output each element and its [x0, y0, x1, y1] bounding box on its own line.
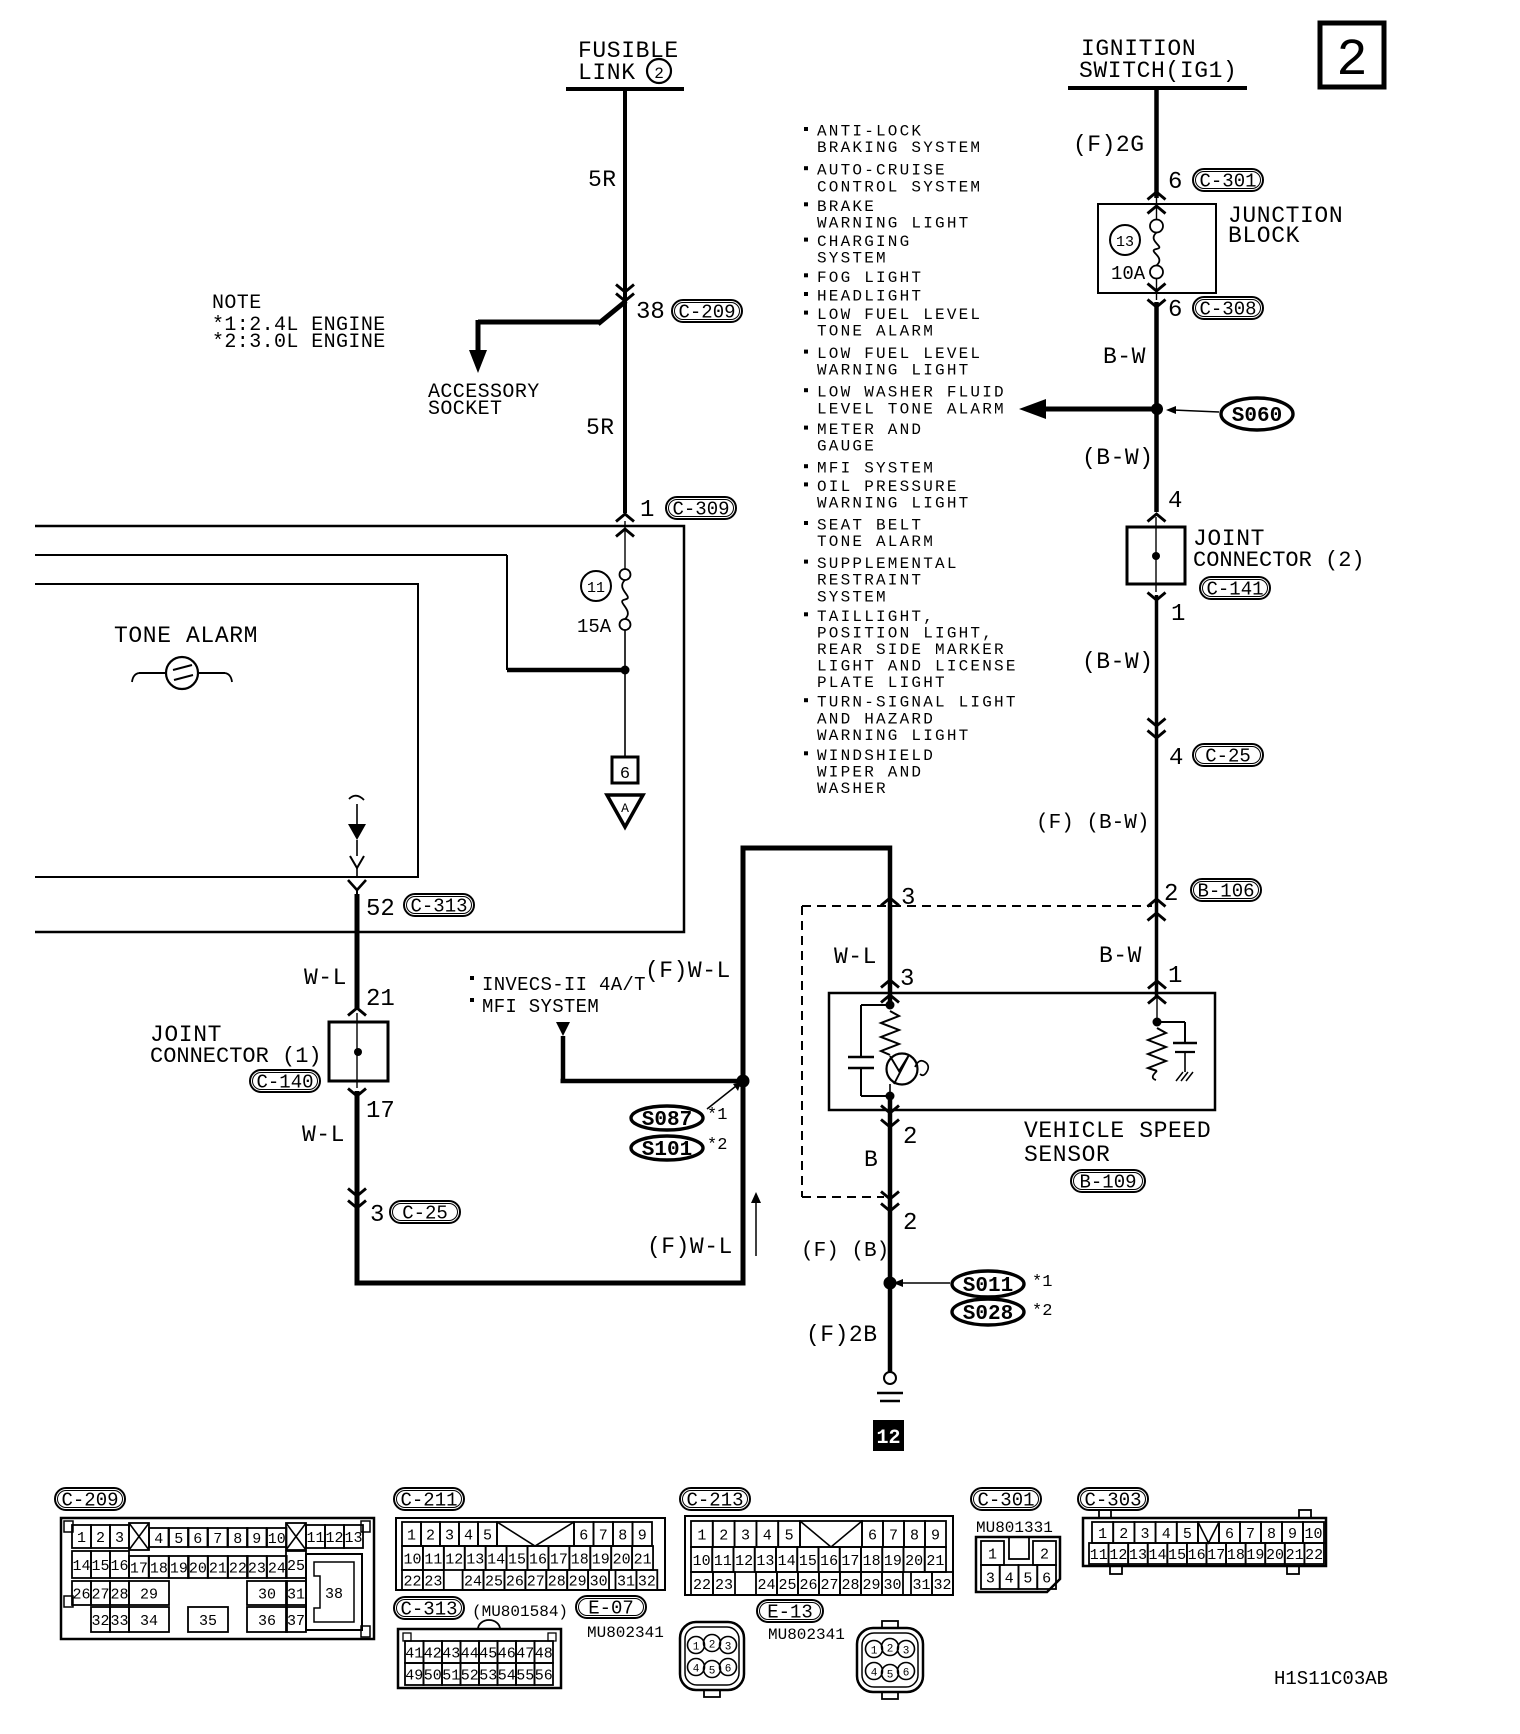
svg-text:6: 6	[193, 1531, 202, 1548]
svg-text:W-L: W-L	[834, 944, 877, 970]
svg-text:WASHER: WASHER	[817, 780, 888, 798]
svg-text:12: 12	[876, 1427, 900, 1450]
svg-text:3: 3	[370, 1202, 384, 1229]
svg-text:3: 3	[725, 1642, 732, 1654]
svg-text:38: 38	[636, 299, 665, 326]
svg-text:49: 49	[405, 1667, 423, 1684]
svg-text:C-211: C-211	[400, 1490, 457, 1512]
svg-text:POSITION LIGHT,: POSITION LIGHT,	[817, 624, 994, 642]
svg-text:12: 12	[445, 1551, 463, 1568]
svg-text:B-106: B-106	[1197, 881, 1254, 903]
svg-text:20: 20	[613, 1551, 631, 1568]
svg-text:56: 56	[535, 1667, 553, 1684]
svg-text:4: 4	[1005, 1570, 1014, 1587]
svg-text:WARNING LIGHT: WARNING LIGHT	[817, 362, 970, 380]
svg-text:32: 32	[933, 1577, 951, 1594]
svg-text:10: 10	[268, 1531, 286, 1548]
svg-text:BLOCK: BLOCK	[1228, 223, 1300, 249]
svg-text:30: 30	[258, 1586, 276, 1603]
svg-text:PLATE LIGHT: PLATE LIGHT	[817, 674, 947, 692]
svg-text:19: 19	[1246, 1547, 1264, 1564]
svg-text:24: 24	[464, 1573, 482, 1590]
svg-text:E-13: E-13	[767, 1602, 813, 1624]
svg-text:10: 10	[693, 1553, 711, 1570]
svg-text:26: 26	[72, 1586, 90, 1603]
svg-text:LOW FUEL LEVEL: LOW FUEL LEVEL	[817, 306, 982, 324]
svg-text:(B-W): (B-W)	[1082, 649, 1154, 675]
svg-text:21: 21	[926, 1553, 944, 1570]
svg-text:30: 30	[883, 1577, 901, 1594]
svg-text:3: 3	[903, 1646, 910, 1658]
svg-text:14: 14	[487, 1551, 505, 1568]
svg-text:52: 52	[366, 896, 395, 923]
svg-text:(MU801584): (MU801584)	[472, 1603, 568, 1621]
svg-text:HEADLIGHT: HEADLIGHT	[817, 288, 923, 306]
svg-text:16: 16	[1188, 1547, 1206, 1564]
svg-text:41: 41	[405, 1645, 423, 1662]
svg-text:26: 26	[799, 1577, 817, 1594]
svg-text:1: 1	[693, 1642, 700, 1654]
svg-text:3: 3	[986, 1570, 995, 1587]
svg-text:CONTROL SYSTEM: CONTROL SYSTEM	[817, 178, 982, 196]
svg-text:19: 19	[884, 1553, 902, 1570]
svg-text:9: 9	[638, 1527, 647, 1544]
svg-text:1: 1	[77, 1530, 86, 1547]
svg-text:15: 15	[1168, 1547, 1186, 1564]
svg-text:32: 32	[638, 1573, 656, 1590]
svg-text:TURN-SIGNAL LIGHT: TURN-SIGNAL LIGHT	[817, 694, 1018, 712]
svg-text:W-L: W-L	[302, 1122, 345, 1148]
svg-text:TONE ALARM: TONE ALARM	[817, 533, 935, 551]
svg-text:29: 29	[140, 1586, 158, 1603]
svg-text:(F)W-L: (F)W-L	[645, 958, 731, 984]
svg-text:WARNING LIGHT: WARNING LIGHT	[817, 727, 970, 745]
svg-text:4: 4	[693, 1664, 700, 1676]
svg-text:B: B	[864, 1147, 878, 1173]
svg-text:A: A	[621, 801, 629, 816]
svg-text:2: 2	[654, 65, 664, 83]
svg-text:ANTI-LOCK: ANTI-LOCK	[817, 123, 923, 141]
svg-text:13: 13	[344, 1530, 362, 1547]
svg-text:19: 19	[170, 1560, 188, 1577]
svg-text:LIGHT AND LICENSE: LIGHT AND LICENSE	[817, 658, 1018, 676]
svg-text:4: 4	[154, 1531, 163, 1548]
svg-text:6: 6	[725, 1664, 732, 1676]
svg-text:5: 5	[887, 1670, 894, 1682]
svg-text:1: 1	[871, 1646, 878, 1658]
svg-text:SYSTEM: SYSTEM	[817, 250, 888, 268]
svg-text:11: 11	[424, 1551, 442, 1568]
svg-text:FOG LIGHT: FOG LIGHT	[817, 269, 923, 287]
svg-text:10: 10	[403, 1551, 421, 1568]
svg-text:12: 12	[735, 1553, 753, 1570]
svg-text:C-308: C-308	[1199, 299, 1256, 321]
svg-text:S087: S087	[642, 1109, 692, 1132]
svg-text:WIPER AND: WIPER AND	[817, 763, 923, 781]
svg-text:1: 1	[407, 1527, 416, 1544]
svg-text:C-140: C-140	[256, 1072, 313, 1094]
svg-text:MFI SYSTEM: MFI SYSTEM	[817, 460, 935, 478]
svg-text:21: 21	[366, 986, 395, 1013]
svg-text:WARNING LIGHT: WARNING LIGHT	[817, 214, 970, 232]
svg-text:2: 2	[1040, 1546, 1049, 1563]
svg-text:5: 5	[785, 1527, 794, 1544]
svg-text:SEAT BELT: SEAT BELT	[817, 517, 923, 535]
svg-text:5R: 5R	[586, 415, 615, 441]
svg-text:25: 25	[485, 1573, 503, 1590]
svg-text:22: 22	[229, 1560, 247, 1577]
svg-text:C-313: C-313	[410, 896, 467, 918]
svg-text:18: 18	[150, 1560, 168, 1577]
svg-text:(F)2G: (F)2G	[1073, 132, 1145, 158]
svg-text:34: 34	[140, 1613, 158, 1630]
svg-text:16: 16	[529, 1551, 547, 1568]
svg-text:18: 18	[571, 1551, 589, 1568]
svg-text:15: 15	[508, 1551, 526, 1568]
svg-text:LINK: LINK	[578, 60, 636, 86]
svg-text:*1: *1	[707, 1106, 727, 1125]
svg-text:(F)W-L: (F)W-L	[647, 1234, 733, 1260]
svg-text:2: 2	[903, 1210, 917, 1237]
svg-text:MU802341: MU802341	[587, 1624, 664, 1642]
svg-text:B-W: B-W	[1099, 943, 1142, 969]
svg-text:METER AND: METER AND	[817, 421, 923, 439]
svg-text:3: 3	[445, 1527, 454, 1544]
svg-text:7: 7	[599, 1527, 608, 1544]
svg-text:27: 27	[820, 1577, 838, 1594]
svg-text:2: 2	[887, 1644, 894, 1656]
svg-text:29: 29	[862, 1577, 880, 1594]
svg-text:B-W: B-W	[1103, 344, 1146, 370]
svg-text:15: 15	[799, 1553, 817, 1570]
svg-text:36: 36	[258, 1613, 276, 1630]
svg-text:WARNING LIGHT: WARNING LIGHT	[817, 495, 970, 513]
svg-text:C-25: C-25	[402, 1203, 448, 1225]
svg-text:9: 9	[1288, 1526, 1297, 1543]
svg-text:INVECS-II 4A/T: INVECS-II 4A/T	[482, 974, 646, 996]
svg-text:VEHICLE SPEED: VEHICLE SPEED	[1024, 1118, 1211, 1144]
svg-text:H1S11C03AB: H1S11C03AB	[1274, 1668, 1388, 1690]
svg-text:17: 17	[841, 1553, 859, 1570]
svg-text:C-301: C-301	[1199, 171, 1256, 193]
svg-text:28: 28	[548, 1573, 566, 1590]
svg-text:13: 13	[466, 1551, 484, 1568]
svg-text:C-309: C-309	[672, 499, 729, 521]
svg-text:TONE ALARM: TONE ALARM	[114, 623, 258, 649]
svg-text:SOCKET: SOCKET	[428, 398, 502, 421]
svg-text:22: 22	[403, 1573, 421, 1590]
svg-text:15: 15	[91, 1558, 109, 1575]
svg-text:13: 13	[1116, 234, 1134, 251]
svg-text:44: 44	[461, 1645, 479, 1662]
svg-text:11: 11	[1090, 1547, 1108, 1564]
svg-text:23: 23	[424, 1573, 442, 1590]
svg-text:28: 28	[110, 1586, 128, 1603]
svg-text:2: 2	[1164, 881, 1178, 908]
svg-text:AUTO-CRUISE: AUTO-CRUISE	[817, 162, 947, 180]
svg-text:B-109: B-109	[1079, 1172, 1136, 1194]
svg-text:24: 24	[268, 1560, 286, 1577]
svg-text:8: 8	[233, 1531, 242, 1548]
svg-text:TONE ALARM: TONE ALARM	[817, 323, 935, 341]
svg-text:48: 48	[535, 1645, 553, 1662]
svg-text:52: 52	[461, 1667, 479, 1684]
svg-text:12: 12	[1109, 1547, 1127, 1564]
svg-text:1: 1	[697, 1527, 706, 1544]
svg-text:RESTRAINT: RESTRAINT	[817, 572, 923, 590]
svg-text:13: 13	[756, 1553, 774, 1570]
svg-text:21: 21	[634, 1551, 652, 1568]
svg-text:1: 1	[1098, 1526, 1107, 1543]
svg-text:C-301: C-301	[977, 1490, 1034, 1512]
svg-text:24: 24	[757, 1577, 775, 1594]
svg-text:8: 8	[618, 1527, 627, 1544]
svg-text:6: 6	[868, 1527, 877, 1544]
svg-text:(F) (B): (F) (B)	[801, 1240, 889, 1263]
svg-text:3: 3	[900, 966, 914, 993]
svg-text:SYSTEM: SYSTEM	[817, 588, 888, 606]
svg-text:6: 6	[620, 765, 630, 784]
svg-text:S011: S011	[963, 1275, 1013, 1298]
svg-text:SENSOR: SENSOR	[1024, 1142, 1110, 1168]
svg-text:SWITCH(IG1): SWITCH(IG1)	[1079, 58, 1237, 84]
svg-text:C-313: C-313	[400, 1599, 457, 1621]
svg-text:3: 3	[741, 1527, 750, 1544]
svg-text:SUPPLEMENTAL: SUPPLEMENTAL	[817, 555, 959, 573]
svg-text:W-L: W-L	[304, 965, 347, 991]
svg-text:4: 4	[464, 1527, 473, 1544]
svg-text:53: 53	[479, 1667, 497, 1684]
svg-text:3: 3	[901, 885, 915, 912]
svg-text:14: 14	[72, 1558, 90, 1575]
svg-text:LOW WASHER FLUID: LOW WASHER FLUID	[817, 384, 1006, 402]
svg-text:29: 29	[569, 1573, 587, 1590]
svg-text:GAUGE: GAUGE	[817, 438, 876, 456]
svg-text:4: 4	[1168, 488, 1182, 515]
svg-text:(B-W): (B-W)	[1082, 445, 1154, 471]
svg-text:17: 17	[366, 1098, 395, 1125]
svg-text:1: 1	[640, 497, 654, 524]
svg-text:(F)2B: (F)2B	[806, 1322, 878, 1348]
svg-text:11: 11	[306, 1530, 324, 1547]
svg-text:12: 12	[325, 1530, 343, 1547]
svg-text:2: 2	[719, 1527, 728, 1544]
svg-text:MFI SYSTEM: MFI SYSTEM	[482, 996, 599, 1018]
svg-text:15A: 15A	[577, 616, 612, 638]
svg-text:C-141: C-141	[1206, 579, 1263, 601]
svg-text:6: 6	[579, 1527, 588, 1544]
svg-text:28: 28	[841, 1577, 859, 1594]
svg-text:6: 6	[1042, 1570, 1051, 1587]
svg-text:7: 7	[1246, 1526, 1255, 1543]
svg-text:17: 17	[1207, 1547, 1225, 1564]
svg-text:(F) (B-W): (F) (B-W)	[1036, 812, 1149, 835]
svg-text:46: 46	[498, 1645, 516, 1662]
svg-text:11: 11	[587, 580, 605, 597]
svg-text:25: 25	[778, 1577, 796, 1594]
svg-text:C-25: C-25	[1205, 746, 1251, 768]
svg-text:19: 19	[592, 1551, 610, 1568]
svg-text:18: 18	[863, 1553, 881, 1570]
svg-text:3: 3	[1140, 1526, 1149, 1543]
svg-text:BRAKING SYSTEM: BRAKING SYSTEM	[817, 139, 982, 157]
svg-text:35: 35	[199, 1613, 217, 1630]
svg-text:C-303: C-303	[1084, 1490, 1141, 1512]
svg-text:7: 7	[213, 1531, 222, 1548]
svg-text:4: 4	[1169, 745, 1183, 772]
svg-text:37: 37	[287, 1613, 305, 1630]
svg-text:*2: *2	[707, 1136, 727, 1155]
svg-text:25: 25	[287, 1558, 305, 1575]
svg-text:2: 2	[1119, 1526, 1128, 1543]
svg-text:23: 23	[248, 1560, 266, 1577]
svg-text:4: 4	[763, 1527, 772, 1544]
svg-text:17: 17	[550, 1551, 568, 1568]
svg-text:26: 26	[506, 1573, 524, 1590]
svg-text:5: 5	[709, 1666, 716, 1678]
svg-text:6: 6	[1225, 1526, 1234, 1543]
svg-text:27: 27	[527, 1573, 545, 1590]
svg-text:31: 31	[617, 1573, 635, 1590]
svg-text:16: 16	[820, 1553, 838, 1570]
svg-text:11: 11	[714, 1553, 732, 1570]
svg-text:21: 21	[209, 1560, 227, 1577]
svg-text:E-07: E-07	[588, 1598, 634, 1620]
svg-text:REAR SIDE MARKER: REAR SIDE MARKER	[817, 641, 1006, 659]
svg-text:MU802341: MU802341	[768, 1626, 845, 1644]
svg-text:2: 2	[903, 1124, 917, 1151]
svg-text:42: 42	[424, 1645, 442, 1662]
svg-text:C-209: C-209	[61, 1490, 118, 1512]
svg-text:CONNECTOR (2): CONNECTOR (2)	[1193, 548, 1365, 573]
svg-text:5: 5	[1183, 1526, 1192, 1543]
svg-text:S028: S028	[963, 1303, 1013, 1326]
svg-text:22: 22	[693, 1577, 711, 1594]
svg-text:32: 32	[91, 1613, 109, 1630]
svg-text:S101: S101	[642, 1139, 692, 1162]
svg-text:43: 43	[442, 1645, 460, 1662]
svg-text:50: 50	[424, 1667, 442, 1684]
svg-text:5: 5	[174, 1531, 183, 1548]
svg-text:1: 1	[988, 1546, 997, 1563]
svg-text:30: 30	[590, 1573, 608, 1590]
svg-text:WINDSHIELD: WINDSHIELD	[817, 747, 935, 765]
svg-text:LOW FUEL LEVEL: LOW FUEL LEVEL	[817, 345, 982, 363]
svg-text:TAILLIGHT,: TAILLIGHT,	[817, 608, 935, 626]
svg-text:38: 38	[325, 1586, 343, 1603]
svg-text:4: 4	[871, 1668, 878, 1680]
svg-text:8: 8	[910, 1527, 919, 1544]
svg-text:4: 4	[1162, 1526, 1171, 1543]
svg-text:6: 6	[1168, 169, 1182, 196]
svg-text:17: 17	[130, 1560, 148, 1577]
svg-text:1: 1	[1168, 963, 1182, 990]
svg-text:2: 2	[709, 1640, 716, 1652]
svg-text:2: 2	[426, 1527, 435, 1544]
svg-text:8: 8	[1267, 1526, 1276, 1543]
svg-text:18: 18	[1227, 1547, 1245, 1564]
svg-text:31: 31	[287, 1586, 305, 1603]
svg-text:CONNECTOR (1): CONNECTOR (1)	[150, 1044, 322, 1069]
svg-text:2: 2	[1336, 31, 1367, 90]
svg-text:5R: 5R	[588, 167, 617, 193]
svg-text:13: 13	[1129, 1547, 1147, 1564]
svg-text:47: 47	[516, 1645, 534, 1662]
svg-text:*2:3.0L ENGINE: *2:3.0L ENGINE	[212, 331, 386, 354]
svg-text:3: 3	[115, 1530, 124, 1547]
svg-text:31: 31	[912, 1577, 930, 1594]
svg-text:22: 22	[1305, 1547, 1323, 1564]
svg-text:LEVEL TONE ALARM: LEVEL TONE ALARM	[817, 400, 1006, 418]
svg-text:9: 9	[252, 1531, 261, 1548]
svg-text:5: 5	[483, 1527, 492, 1544]
svg-text:55: 55	[516, 1667, 534, 1684]
svg-text:7: 7	[889, 1527, 898, 1544]
svg-text:MU801331: MU801331	[976, 1519, 1053, 1537]
svg-text:20: 20	[189, 1560, 207, 1577]
svg-text:20: 20	[1266, 1547, 1284, 1564]
svg-text:14: 14	[1149, 1547, 1167, 1564]
svg-text:33: 33	[110, 1613, 128, 1630]
svg-text:*2: *2	[1032, 1302, 1052, 1321]
svg-text:C-213: C-213	[686, 1490, 743, 1512]
svg-text:AND HAZARD: AND HAZARD	[817, 710, 935, 728]
svg-text:6: 6	[1168, 297, 1182, 324]
svg-text:CHARGING: CHARGING	[817, 233, 911, 251]
svg-text:NOTE: NOTE	[212, 292, 262, 315]
svg-text:5: 5	[1023, 1570, 1032, 1587]
svg-text:C-209: C-209	[678, 302, 735, 324]
svg-text:16: 16	[110, 1558, 128, 1575]
svg-text:45: 45	[479, 1645, 497, 1662]
svg-text:2: 2	[96, 1530, 105, 1547]
svg-text:14: 14	[778, 1553, 796, 1570]
svg-text:9: 9	[931, 1527, 940, 1544]
svg-text:23: 23	[715, 1577, 733, 1594]
svg-text:10A: 10A	[1111, 263, 1146, 285]
svg-text:20: 20	[905, 1553, 923, 1570]
svg-text:27: 27	[91, 1586, 109, 1603]
svg-text:OIL PRESSURE: OIL PRESSURE	[817, 478, 959, 496]
svg-text:21: 21	[1286, 1547, 1304, 1564]
svg-text:51: 51	[442, 1667, 460, 1684]
svg-text:6: 6	[903, 1668, 910, 1680]
svg-text:*1: *1	[1032, 1273, 1052, 1292]
svg-text:10: 10	[1304, 1526, 1322, 1543]
svg-text:S060: S060	[1232, 405, 1282, 428]
svg-text:1: 1	[1171, 601, 1185, 628]
svg-text:54: 54	[498, 1667, 516, 1684]
svg-text:BRAKE: BRAKE	[817, 198, 876, 216]
